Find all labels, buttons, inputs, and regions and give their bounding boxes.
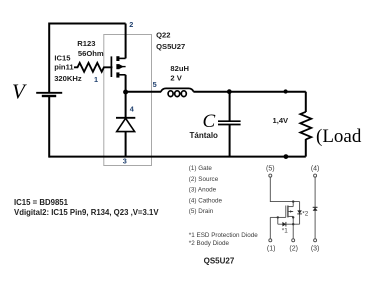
svg-text:*1 ESD Protection Diode: *1 ESD Protection Diode (189, 232, 258, 239)
svg-text:(2) Source: (2) Source (189, 176, 219, 183)
svg-text:(3) Anode: (3) Anode (189, 187, 217, 194)
svg-text:1,4V: 1,4V (273, 116, 290, 125)
svg-text:IC15: IC15 (54, 54, 71, 63)
svg-text:*2 Body Diode: *2 Body Diode (189, 240, 230, 247)
svg-text:Q22: Q22 (156, 30, 170, 39)
svg-text:82uH: 82uH (170, 64, 189, 73)
svg-text:(1) Gate: (1) Gate (189, 165, 213, 172)
svg-text:(3): (3) (311, 245, 320, 252)
svg-text:(5) Drain: (5) Drain (189, 208, 214, 215)
svg-text:R123: R123 (77, 39, 95, 48)
svg-text:V: V (12, 79, 27, 103)
svg-text:Vdigital2: IC15 Pin9, R134, Q2: Vdigital2: IC15 Pin9, R134, Q23 ,V=3.1V (14, 208, 159, 217)
svg-text:(1): (1) (267, 245, 276, 252)
svg-text:(Load: (Load (316, 126, 362, 147)
svg-text:5: 5 (153, 80, 157, 89)
svg-text:QS5U27: QS5U27 (204, 257, 235, 266)
svg-text:(4) Cathode: (4) Cathode (189, 197, 223, 204)
svg-text:pin11: pin11 (54, 63, 74, 72)
svg-text:4: 4 (130, 104, 135, 113)
svg-text:(5): (5) (266, 166, 275, 173)
svg-text:2 V: 2 V (170, 73, 182, 82)
svg-text:Tántalo: Tántalo (190, 131, 219, 140)
svg-text:IC15 = BD9851: IC15 = BD9851 (14, 198, 69, 207)
svg-text:3: 3 (123, 157, 127, 166)
svg-text:2: 2 (129, 20, 133, 29)
svg-text:(4): (4) (311, 166, 320, 173)
svg-text:*1: *1 (282, 228, 288, 235)
svg-text:1: 1 (94, 75, 98, 84)
svg-text:(2): (2) (289, 245, 298, 252)
svg-text:56Ohm: 56Ohm (78, 49, 104, 58)
svg-text:C: C (203, 111, 216, 132)
svg-text:320KHz: 320KHz (54, 74, 82, 83)
svg-text:QS5U27: QS5U27 (156, 42, 185, 51)
svg-text:*2: *2 (302, 210, 308, 217)
